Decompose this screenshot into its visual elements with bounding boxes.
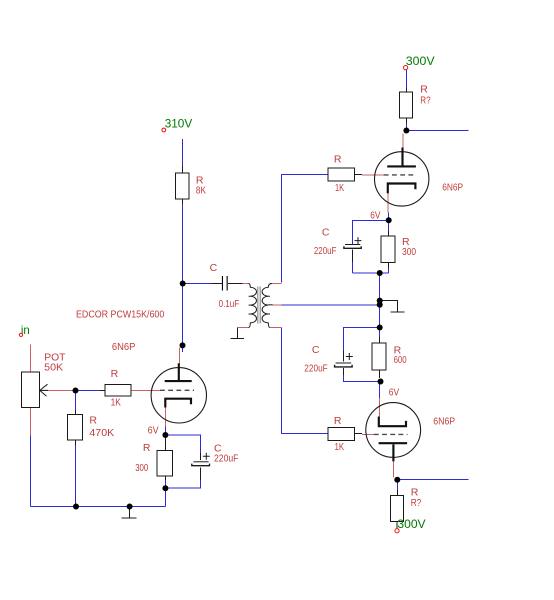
pin R6 right	[355, 433, 363, 435]
capacitor C2 220uF	[314, 227, 362, 257]
svg-text:C: C	[210, 262, 218, 274]
svg-text:300: 300	[402, 246, 416, 258]
node D2 (transformer tap)	[377, 302, 383, 308]
pin R5 top	[379, 337, 381, 343]
potentiometer POT 50K	[21, 352, 66, 408]
T1 primary winding	[249, 284, 257, 328]
pin C4 top	[200, 453, 202, 460]
wire U1 cathode red	[165, 408, 167, 427]
pin R3 top	[406, 88, 408, 93]
wire R10 bottom to rail	[75, 446, 77, 507]
svg-text:6V: 6V	[389, 386, 399, 398]
wire node C down	[379, 273, 381, 337]
T1 secondary winding	[262, 284, 272, 328]
wire transformer tap	[282, 304, 380, 306]
wire pot node to R9	[76, 390, 101, 392]
wire node F down to U3 cathode	[379, 382, 381, 399]
resistor R9 1K (first stage)	[105, 368, 131, 409]
pin R5 bottom	[379, 370, 381, 378]
svg-text:600: 600	[394, 354, 407, 366]
wire node H to rail	[165, 488, 167, 507]
ground right (cathode)	[381, 301, 405, 313]
wire grid bus top R2	[282, 175, 329, 283]
pin R7 top	[397, 490, 399, 496]
svg-text:1K: 1K	[335, 182, 344, 194]
wire T1 bottom-left red	[238, 327, 250, 329]
wire in port red	[30, 344, 32, 372]
wire node F to U3 cathode red	[379, 398, 381, 416]
wire U2 anode red	[402, 133, 404, 147]
wire node 6V to C2	[353, 221, 389, 246]
svg-text:R: R	[111, 368, 119, 380]
svg-text:R: R	[334, 154, 342, 166]
node B (U2 anode)	[403, 128, 409, 134]
node above U1 anode	[180, 342, 186, 348]
T1 core	[258, 287, 260, 324]
pin R3 bottom	[406, 118, 408, 124]
resistor R8 300 (first stage)	[135, 442, 172, 476]
svg-text:EDCOR PCW15K/600: EDCOR PCW15K/600	[76, 308, 164, 320]
pin C4 bottom	[200, 468, 202, 481]
wire U2 cathode to node 6V	[388, 212, 390, 220]
wire R2 to U2 grid	[362, 174, 384, 176]
wire T1 tap red	[273, 304, 282, 306]
wire C1 right red	[243, 283, 250, 285]
wire pot bottom down	[30, 435, 32, 506]
node 6V (U1 cathode)	[162, 432, 168, 438]
node 6V (U2 cathode)	[386, 217, 392, 223]
wire V+ rail to R1	[182, 139, 184, 166]
wire node G output right	[398, 479, 469, 481]
wire C3 bottom to rail	[344, 375, 380, 382]
wire R1 to node A	[182, 204, 184, 352]
node G (U3 anode)	[394, 477, 400, 483]
capacitor C1 0.1uF	[210, 262, 240, 310]
wire T1 top-right red	[270, 283, 282, 285]
resistor R1 8K	[175, 173, 206, 199]
pin R1 top	[182, 166, 184, 173]
tube U2 6N6P (top right)	[375, 148, 464, 207]
wire U3 anode node down	[397, 481, 399, 490]
pin C1 right	[228, 283, 243, 285]
svg-text:R: R	[334, 415, 342, 427]
wire cathode rail top	[353, 272, 389, 274]
wire T1 bottom-right red	[270, 327, 282, 329]
wire U2 cathode red	[387, 193, 389, 212]
svg-text:C: C	[322, 227, 330, 239]
port 300V (top)	[404, 54, 435, 70]
node C (cathode rail top)	[377, 270, 383, 276]
wire C2 bottom to rail	[352, 262, 354, 273]
port 300V (bottom)	[395, 517, 426, 533]
pin R4 top	[388, 231, 390, 236]
node rail ground	[127, 504, 133, 510]
svg-text:220uF: 220uF	[304, 363, 327, 375]
T1 secondary cusp ticks	[268, 296, 270, 314]
port 310V	[162, 116, 192, 132]
wire node 6V to C4	[166, 435, 201, 453]
capacitor C4 220uF	[192, 443, 239, 466]
svg-text:R: R	[143, 442, 151, 454]
wire node B output right	[407, 130, 469, 132]
ground below T1	[231, 328, 245, 339]
svg-text:470K: 470K	[89, 427, 114, 439]
wire R6 to U3 grid	[362, 434, 375, 436]
T1 primary cusp ticks	[249, 296, 251, 314]
wire R4 bottom	[388, 269, 390, 274]
pin R7 bottom	[396, 522, 398, 529]
pin R1 bottom	[182, 199, 184, 204]
svg-text:1K: 1K	[335, 441, 345, 453]
svg-text:220uF: 220uF	[214, 453, 238, 465]
wire C4 bottom to node H	[166, 480, 201, 488]
svg-text:6N6P: 6N6P	[433, 416, 455, 428]
tube U3 6N6P (bottom right)	[366, 403, 455, 462]
wire pot node to R10	[75, 391, 77, 411]
resistor R4 300	[381, 236, 416, 263]
svg-text:6N6P: 6N6P	[442, 182, 463, 194]
resistor R7 R? (bottom)	[390, 487, 421, 522]
wire pot bottom red	[30, 407, 32, 435]
wire U1 cathode blue	[165, 427, 167, 435]
pin C3 bottom	[343, 368, 345, 375]
wire R3 to node B	[406, 124, 408, 131]
node pot wiper	[73, 388, 79, 394]
resistor R10 470K	[68, 414, 115, 440]
wire R8 bottom	[165, 480, 167, 488]
pin R8 top	[165, 438, 167, 450]
svg-text:C: C	[312, 344, 320, 356]
node E (C3 tap)	[377, 325, 383, 331]
svg-text:R?: R?	[411, 497, 422, 509]
svg-text:50K: 50K	[44, 362, 63, 374]
pin C1 left	[212, 283, 222, 285]
wire node E to C3	[344, 328, 380, 351]
svg-text:220uF: 220uF	[314, 245, 337, 257]
svg-text:310V: 310V	[165, 116, 193, 130]
pin C3 top	[343, 351, 345, 362]
svg-text:R?: R?	[420, 95, 430, 107]
port in	[19, 323, 29, 337]
node rail R10	[73, 504, 79, 510]
pin R10 bottom	[75, 440, 77, 446]
transformer T1	[249, 284, 273, 328]
T1 tap stub	[268, 304, 272, 306]
tube U1 6N6P (first stage)	[112, 341, 207, 423]
wire 300V to R3	[406, 70, 408, 88]
svg-text:1K: 1K	[111, 397, 121, 409]
resistor R2 1K (top)	[328, 154, 355, 194]
node D1 (ground tap)	[377, 298, 383, 304]
wire R9 to U1 grid	[131, 390, 161, 392]
svg-text:300V: 300V	[397, 517, 425, 531]
svg-text:8K: 8K	[196, 184, 206, 196]
wire pot wiper red	[41, 390, 76, 392]
svg-text:R: R	[89, 415, 97, 427]
svg-text:6N6P: 6N6P	[112, 341, 135, 353]
wire bottom rail	[31, 506, 166, 508]
wire node 6V to R4	[388, 221, 390, 231]
pin R10 top	[75, 410, 77, 414]
ground bottom left	[122, 508, 137, 518]
resistor R5 600	[372, 343, 407, 370]
node F (R5/C3 bottom)	[378, 379, 384, 385]
wire grid bus bottom R6	[282, 328, 329, 434]
pin R4 bottom	[388, 262, 390, 268]
pin C2 bottom	[352, 250, 354, 263]
svg-text:6V: 6V	[370, 209, 380, 221]
svg-text:300: 300	[135, 462, 148, 474]
node A (C1 tap)	[180, 281, 186, 287]
pin R9 left	[100, 390, 105, 392]
capacitor C3 220uF	[304, 344, 353, 375]
resistor R3 R? (top)	[399, 84, 430, 118]
svg-text:0.1uF: 0.1uF	[219, 298, 240, 310]
resistor R6 1K (bottom)	[328, 415, 355, 453]
pin R2 right	[355, 174, 363, 176]
svg-text:6V: 6V	[148, 425, 159, 437]
wire node 6V to R8	[165, 435, 167, 438]
wire U1 anode red	[179, 348, 181, 364]
pin R8 bottom	[165, 476, 167, 480]
wire node A to C1	[183, 283, 212, 285]
svg-text:300V: 300V	[406, 54, 435, 68]
wire U3 anode red	[393, 461, 395, 477]
node H (R8/C4 bottom)	[162, 485, 168, 491]
